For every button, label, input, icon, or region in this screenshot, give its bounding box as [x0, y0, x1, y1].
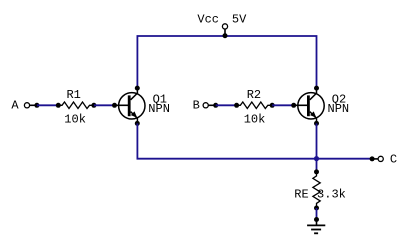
node C terminal: [370, 156, 384, 161]
svg-text:B: B: [193, 98, 200, 112]
svg-text:RE: RE: [294, 188, 308, 202]
wire R1 to Q1 base: [94, 103, 117, 108]
resistor R2: [237, 102, 275, 109]
resistor R1: [58, 102, 96, 109]
svg-text:NPN: NPN: [328, 102, 350, 116]
svg-text:10k: 10k: [244, 113, 266, 127]
svg-text:A: A: [11, 98, 19, 112]
wire rail to RE: [314, 159, 319, 175]
wire B to R2: [216, 103, 239, 108]
node B terminal: [203, 103, 218, 108]
svg-text:R2: R2: [247, 88, 261, 102]
svg-text:Vcc: Vcc: [197, 13, 219, 27]
svg-text:R1: R1: [66, 88, 80, 102]
wire Q2 emitter down: [316, 123, 318, 158]
svg-text:C: C: [390, 152, 397, 166]
wire RE to ground: [314, 208, 319, 222]
transistor Q2: [294, 86, 324, 126]
wire Q1 emitter to output rail: [137, 123, 372, 158]
junction emitter rail: [314, 156, 319, 161]
svg-text:NPN: NPN: [148, 102, 170, 116]
resistor RE: [313, 172, 320, 211]
wire R2 to Q2 base: [272, 103, 296, 108]
wire A to R1: [37, 103, 61, 108]
svg-text:10k: 10k: [64, 113, 86, 127]
node A terminal: [24, 103, 39, 108]
transistor Q1: [115, 86, 146, 126]
ground: [307, 220, 325, 234]
power terminal Vcc: [222, 24, 227, 38]
svg-text:3.3k: 3.3k: [317, 188, 346, 202]
wire top rail Vcc net: [137, 36, 316, 88]
svg-text:5V: 5V: [232, 13, 247, 27]
